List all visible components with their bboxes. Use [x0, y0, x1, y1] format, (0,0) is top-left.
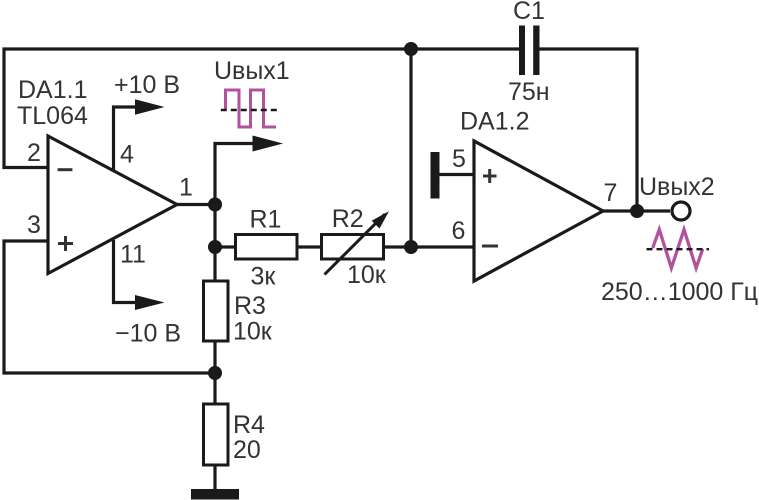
svg-text:3к: 3к — [251, 263, 277, 291]
svg-text:11: 11 — [120, 241, 146, 269]
-10V supply arrow — [114, 240, 165, 310]
resistor R4 — [204, 404, 229, 465]
svg-text:R3: R3 — [234, 292, 266, 320]
resistor R1 — [236, 235, 298, 260]
wire: R4 top lead — [213, 373, 216, 404]
op-amp DA1.2 — [474, 141, 603, 281]
wire: C1 left lead — [411, 47, 519, 50]
op-amp DA1.1 — [48, 136, 177, 274]
wire: node A to R1 — [215, 245, 235, 248]
svg-text:10к: 10к — [347, 261, 387, 289]
wire: C1 right lead down to output node — [540, 49, 638, 212]
svg-text:20: 20 — [233, 436, 261, 464]
wire: pin7 output — [601, 209, 637, 212]
node junction dot (R3/R4 bottom) — [208, 366, 222, 380]
ground symbol — [191, 489, 239, 500]
wire: node B to pin6 — [411, 245, 474, 248]
square wave zero dashed line — [221, 109, 278, 111]
wire: pin1 output to node A — [176, 203, 215, 206]
svg-text:250…1000 Гц: 250…1000 Гц — [601, 278, 758, 306]
triangle wave zero dashed line — [647, 248, 710, 250]
svg-text:6: 6 — [452, 217, 466, 245]
wire: node A down to R1 row — [213, 205, 216, 248]
+10V supply arrow — [114, 99, 165, 170]
wire: pin2 feedback net (left vertical + top horizontal) — [4, 49, 411, 168]
node B junction dot (top wire) — [404, 42, 418, 56]
output terminal circle — [672, 202, 690, 220]
square wave symbol — [226, 90, 277, 127]
pin5 common bar — [431, 152, 440, 199]
node junction dot (R1 row) — [208, 240, 222, 254]
capacitor C1 — [519, 26, 540, 76]
Uvyh1 output arrow — [215, 136, 283, 205]
svg-text:4: 4 — [120, 141, 134, 169]
resistor R2 (variable) — [322, 211, 390, 274]
svg-text:−10 В: −10 В — [115, 320, 181, 348]
svg-text:2: 2 — [27, 139, 41, 167]
wire: R3 bottom lead — [213, 341, 216, 374]
svg-text:TL064: TL064 — [17, 102, 88, 130]
svg-text:R1: R1 — [250, 206, 282, 234]
svg-text:5: 5 — [452, 145, 466, 173]
svg-text:3: 3 — [27, 211, 41, 239]
svg-text:R2: R2 — [332, 205, 364, 233]
wire: R4 bottom lead to ground — [213, 465, 216, 489]
wire: R3 top lead — [213, 247, 216, 281]
node A junction dot (pin1) — [208, 198, 222, 212]
wire: node B vertical (top wire to R2/pin6 node) — [409, 49, 412, 247]
svg-text:R4: R4 — [233, 411, 265, 439]
wire: pin5 lead from common bar — [439, 173, 474, 176]
wire: pin3 net (stub + left vertical + bottom horizontal) — [4, 241, 215, 373]
svg-text:+10 В: +10 В — [114, 71, 180, 99]
svg-text:DA1.2: DA1.2 — [460, 108, 529, 136]
triangle wave symbol — [653, 230, 703, 269]
svg-text:Uвых1: Uвых1 — [214, 57, 290, 85]
output node junction dot — [630, 204, 644, 218]
svg-text:10к: 10к — [233, 318, 273, 346]
svg-text:7: 7 — [604, 179, 618, 207]
resistor R3 — [204, 281, 229, 341]
wire: R1 to R2 — [297, 245, 322, 248]
svg-text:1: 1 — [179, 174, 193, 202]
svg-text:C1: C1 — [513, 0, 545, 25]
svg-text:75н: 75н — [508, 78, 550, 106]
wire: output node to terminal — [637, 209, 670, 212]
wire: R2 to node B — [384, 245, 411, 248]
svg-text:Uвых2: Uвых2 — [639, 173, 715, 201]
svg-text:DA1.1: DA1.1 — [18, 76, 87, 104]
node B junction dot (pin6 row) — [404, 240, 418, 254]
